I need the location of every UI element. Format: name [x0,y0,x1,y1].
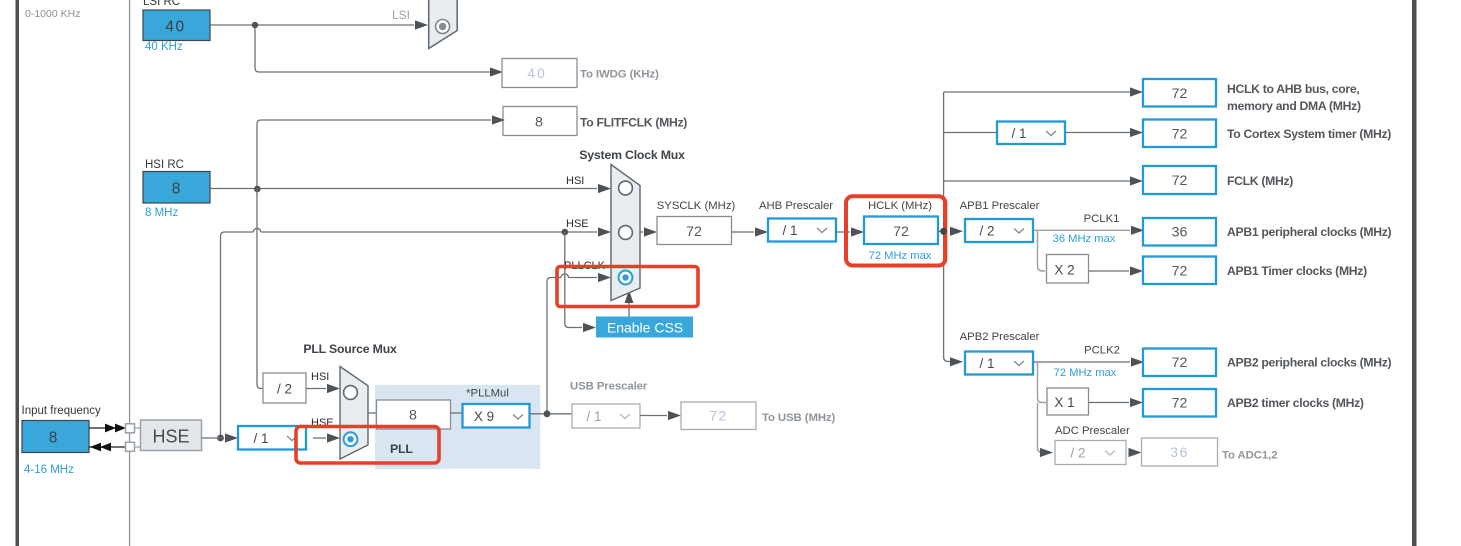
svg-text:/ 1: / 1 [979,356,994,371]
svg-text:To ADC1,2: To ADC1,2 [1222,450,1277,462]
wire APB1 timer branch [1038,230,1046,271]
dropdown ADC prescaler /2 (disabled) [1055,441,1126,465]
arrowhead into APB1 prescaler [950,227,963,236]
radio PLLCLK selected [619,271,633,285]
wire input to HSE pin [89,427,122,429]
wire X9 to USB prescaler [530,413,573,415]
mux System Clock Mux [611,165,640,301]
left panel divider line [16,0,20,546]
svg-text:8: 8 [49,430,58,447]
svg-text:System Clock Mux: System Clock Mux [579,148,685,162]
svg-text:72 MHz max: 72 MHz max [1054,367,1117,379]
wire PLL mux to PLL input box [368,412,377,414]
wire USB prescaler to USB box [640,415,667,417]
svg-text:72: 72 [893,224,909,240]
svg-text:/ 1: / 1 [1011,126,1026,141]
svg-text:40 KHz: 40 KHz [145,41,183,53]
svg-text:40: 40 [527,65,547,81]
svg-text:40: 40 [165,19,185,36]
radio HSE [619,226,633,240]
arrowhead into system mux HSI [598,184,611,193]
svg-text:72: 72 [1172,264,1188,280]
svg-text:To IWDG (KHz): To IWDG (KHz) [580,69,659,81]
box /2 (HSI to PLL) [263,373,306,403]
block input frequency 8 [22,421,89,453]
svg-text:72: 72 [709,408,728,424]
svg-text:HSI RC: HSI RC [145,159,184,171]
wire AHB to HCLK [836,231,850,233]
dropdown PLLMul X9 [463,404,530,428]
svg-text:72: 72 [1172,396,1188,412]
wire Cortex row [944,132,1130,134]
arrowhead into ADC box [1129,448,1142,457]
svg-text:PLL Source Mux: PLL Source Mux [303,342,397,356]
wire HSE to /1 [202,437,225,439]
junction HSI [254,186,261,193]
svg-text:APB1 peripheral clocks (MHz): APB1 peripheral clocks (MHz) [1227,225,1392,239]
wire CSS up-arrow into mux bottom [628,302,630,317]
junction HSE to CSS [562,229,569,236]
box X2 [1047,255,1089,284]
svg-text:APB1 Prescaler: APB1 Prescaler [960,200,1040,212]
wire squares to HSE box [134,428,141,447]
svg-text:0-1000 KHz: 0-1000 KHz [25,8,80,20]
wire HSE pin to input (return) [89,446,134,448]
svg-text:8: 8 [172,181,181,198]
wire mux to SYSCLK box [640,231,643,233]
svg-text:APB1 Timer clocks (MHz): APB1 Timer clocks (MHz) [1227,264,1367,278]
box APB1 peripheral 36 [1143,218,1216,246]
wire LSI RC to RTC mux [210,25,490,72]
block Enable CSS [596,317,693,338]
svg-text:HSE: HSE [566,218,589,230]
svg-text:PCLK2: PCLK2 [1084,345,1120,357]
wire /1 to PLL mux [313,437,326,439]
arrowhead into APB2 prescaler [950,357,963,366]
junction PLLCLK [544,410,551,417]
svg-text:36: 36 [1172,225,1188,241]
dropdown AHB Prescaler /1 [768,219,836,242]
svg-text:memory and DMA (MHz): memory and DMA (MHz) [1227,99,1361,113]
svg-text:72: 72 [1172,127,1188,143]
svg-text:HSI: HSI [311,371,329,383]
svg-text:SYSCLK (MHz): SYSCLK (MHz) [657,200,736,212]
svg-text:X 2: X 2 [1054,263,1074,278]
svg-text:ADC Prescaler: ADC Prescaler [1055,425,1130,437]
svg-text:X 1: X 1 [1054,395,1074,410]
box Cortex out 72 [1143,120,1216,148]
svg-text:72: 72 [1172,173,1188,189]
svg-text:8 MHz: 8 MHz [145,207,178,219]
box SYSCLK [657,217,732,245]
wire /2 to PLL mux [306,388,326,390]
wire X1 to APB2 timer box [1089,402,1129,404]
svg-text:72: 72 [686,224,702,240]
junction HSE at riser [217,435,224,442]
svg-text:AHB Prescaler: AHB Prescaler [759,200,833,212]
box PLL input 8 [377,400,451,429]
junction HCLK [940,228,947,235]
radio PLL HSI [344,386,358,400]
svg-text:72 MHz max: 72 MHz max [869,250,932,262]
arrowhead into IWDG box [490,67,503,76]
svg-text:/ 2: / 2 [1070,446,1085,461]
wire HSE riser to system mux HSE input [221,228,598,438]
block HSE [141,420,202,451]
svg-text:HCLK (MHz): HCLK (MHz) [868,200,932,212]
box X1 [1047,388,1089,415]
svg-text:72: 72 [1172,355,1188,371]
svg-text:/ 1: / 1 [253,431,268,446]
arrowhead into RTC mux [415,20,428,29]
box APB2 timer 72 [1143,389,1216,417]
svg-text:To Cortex System timer (MHz): To Cortex System timer (MHz) [1227,127,1391,141]
RTC clock mux (cropped at top) [429,0,458,49]
mux PLL Source Mux [340,367,368,460]
arrowhead into Enable CSS [583,323,596,332]
svg-text:APB2 peripheral clocks (MHz): APB2 peripheral clocks (MHz) [1227,356,1392,370]
svg-text:/ 2: / 2 [979,224,994,239]
svg-text:To FLITFCLK (MHz): To FLITFCLK (MHz) [580,116,687,130]
svg-text:X 9: X 9 [474,409,494,424]
wire HSI branch down to PLL /2 [257,189,263,389]
PLL multiplier panel [375,385,540,469]
wire HCLK to bus tree [938,92,950,362]
wire ADC branch [1038,403,1043,453]
svg-text:Input frequency: Input frequency [22,405,102,417]
box ADC 36 (disabled) [1142,438,1218,466]
wire HSI RC to system mux HSI input [210,188,597,190]
svg-text:HSI: HSI [566,175,584,187]
svg-text:LSI: LSI [392,8,410,22]
arrowhead into system mux PLLCLK [598,273,611,282]
box To FLITFCLK [503,107,577,136]
svg-text:HCLK to AHB bus, core,: HCLK to AHB bus, core, [1227,82,1359,96]
svg-text:Enable CSS: Enable CSS [607,320,683,336]
svg-text:To USB (MHz): To USB (MHz) [762,412,836,424]
box APB2 peripheral 72 [1143,349,1216,377]
svg-text:4-16 MHz: 4-16 MHz [24,464,74,476]
red highlight rect around HCLK [846,196,945,265]
wire PLLCLK riser to system mux [547,274,597,414]
red highlight rect around PLLCLK input [557,267,698,307]
svg-text:*PLLMul: *PLLMul [466,388,509,400]
dropdown APB1 prescaler /2 [965,219,1033,242]
box To USB 72 (disabled) [681,402,756,430]
svg-text:PLL: PLL [390,442,413,456]
right panel divider line [1412,0,1417,546]
junction LSI [252,22,258,28]
svg-text:FCLK (MHz): FCLK (MHz) [1227,174,1293,188]
dropdown PLL prediv /1 [238,426,306,450]
radio HSI [619,181,633,195]
junction HCLK redraw over red [940,228,947,235]
svg-text:8: 8 [535,115,543,131]
wire APB2 peripheral row [1033,361,1130,363]
wire APB2 timer branch [1038,362,1047,403]
wire X2 to APB1 timer box [1089,270,1129,272]
box To IWDG [502,59,577,88]
wire HSI to FLITFCLK [257,120,491,189]
radio RTC LSI selected (disabled) [436,20,450,34]
wire FCLK row [944,180,1130,182]
svg-text:72: 72 [1172,86,1188,102]
box HCLK out 72 [1143,79,1216,107]
svg-text:LSI RC: LSI RC [143,0,180,8]
svg-text:8: 8 [409,408,417,424]
pin square OSC_OUT [126,442,135,451]
arrowhead into FLITFCLK [492,115,505,124]
chip boundary line [129,0,130,546]
box HCLK [864,217,938,245]
wire 8 to X9 [451,412,463,414]
svg-text:PCLK1: PCLK1 [1084,213,1120,225]
box FCLK 72 [1143,166,1216,194]
arrowhead into system mux HSE [598,227,611,236]
svg-text:HSE: HSE [152,427,189,447]
radio PLL HSE selected [344,432,358,446]
wire SYSCLK to AHB prescaler [732,231,755,233]
svg-text:36: 36 [1170,444,1189,460]
box APB1 timer 72 [1143,257,1216,285]
wire APB1 peripheral row [1034,229,1130,231]
svg-text:/ 2: / 2 [277,382,292,397]
svg-text:APB2 timer clocks (MHz): APB2 timer clocks (MHz) [1227,396,1364,410]
svg-text:36 MHz max: 36 MHz max [1053,233,1116,245]
pin square OSC_IN [126,424,135,433]
svg-text:APB2 Prescaler: APB2 Prescaler [960,331,1040,343]
wire HCLK AHB row [944,91,1130,93]
dropdown Cortex prescaler /1 [997,122,1065,145]
wire HSE down to Enable CSS [565,232,582,328]
dropdown USB prescaler /1 (disabled) [572,404,640,428]
svg-text:/ 1: / 1 [782,223,797,238]
red highlight rect around PLL HSE input [296,427,439,464]
svg-text:/ 1: / 1 [586,409,601,424]
svg-text:USB Prescaler: USB Prescaler [570,381,648,393]
dropdown APB2 prescaler /1 [965,352,1033,375]
